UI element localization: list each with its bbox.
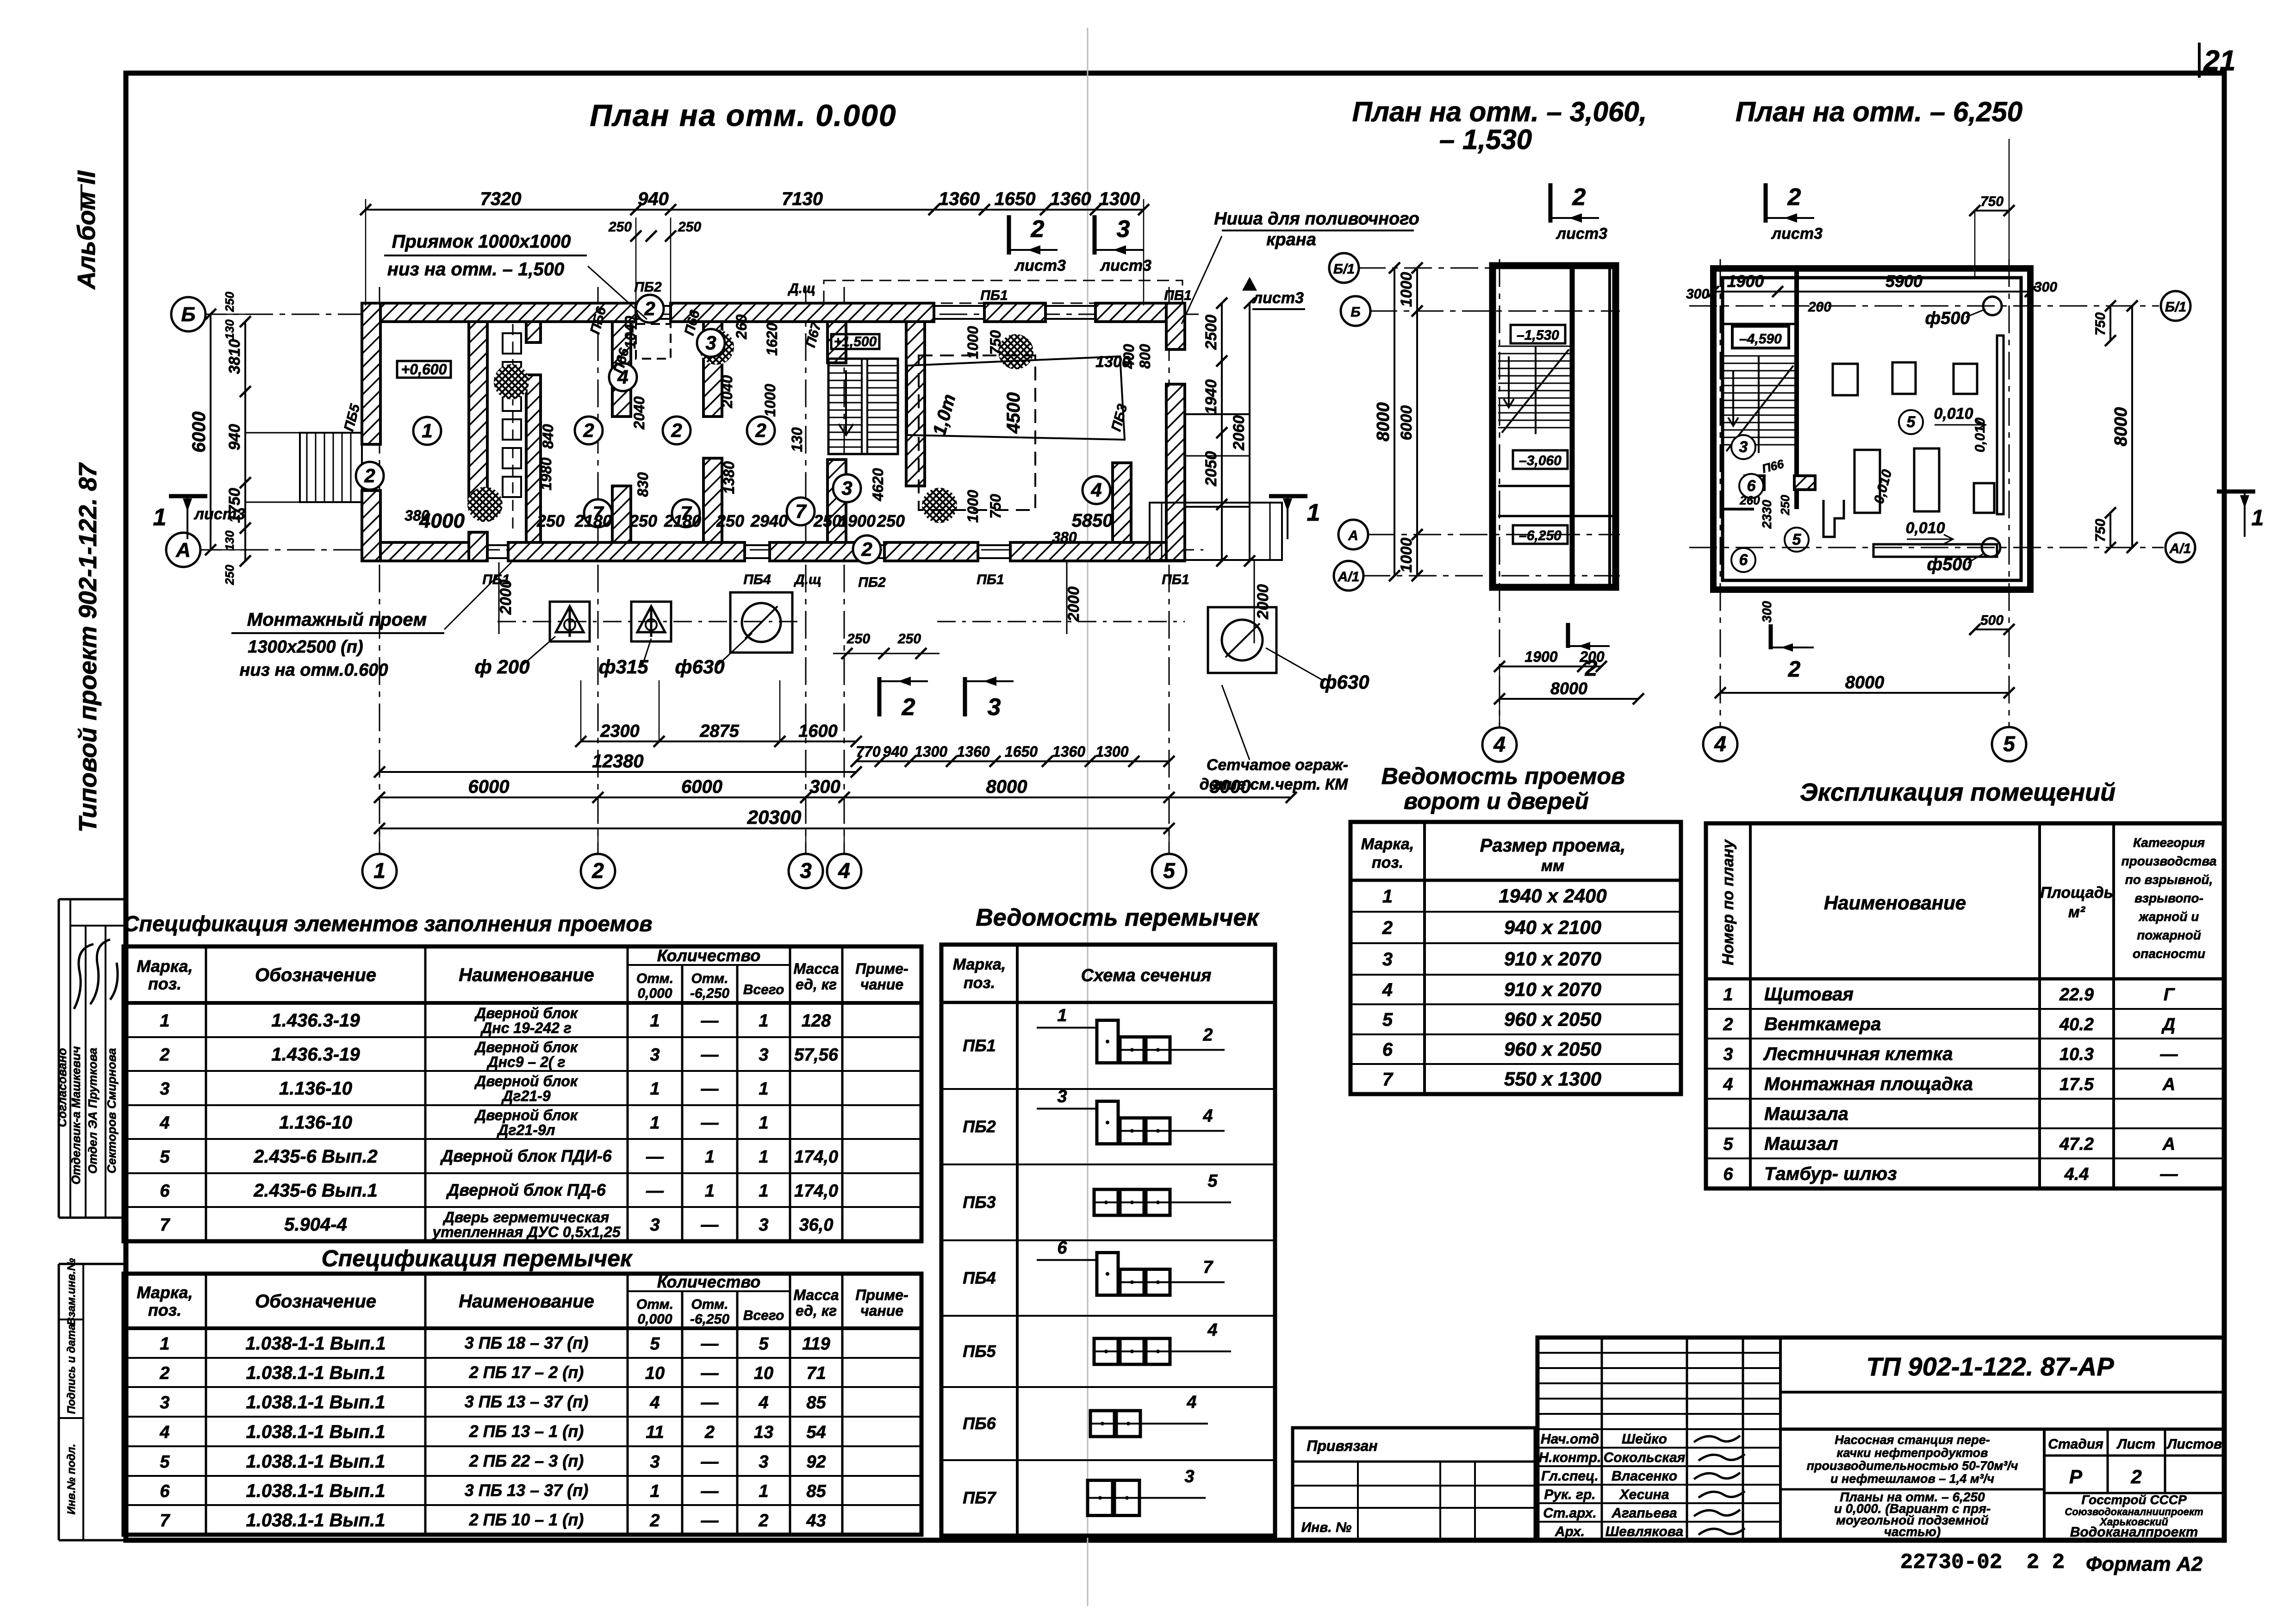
svg-text:—: — [701,1011,719,1031]
svg-text:300: 300 [809,777,840,797]
svg-text:1.038.1-1 Вып.1: 1.038.1-1 Вып.1 [246,1422,386,1442]
title block row [1537,1382,1780,1384]
svg-text:Р: Р [2069,1466,2083,1487]
svg-text:71: 71 [806,1364,826,1383]
svg-text:750: 750 [987,330,1004,355]
svg-text:5: 5 [1163,859,1176,883]
svg-text:Лестничная клетка: Лестничная клетка [1763,1044,1953,1064]
svg-text:1300: 1300 [915,743,947,760]
svg-text:чание: чание [860,976,903,993]
axis circle 1 [362,854,397,888]
panel [503,419,521,440]
fold crease line [1087,28,1089,1606]
svg-text:1: 1 [759,1482,768,1501]
svg-text:250: 250 [629,511,657,530]
axis line 2 vertical [597,287,599,854]
svg-text:174,0: 174,0 [794,1147,838,1167]
svg-text:Насосная станция пере-: Насосная станция пере- [1835,1433,1990,1447]
svg-text:2 ПБ 10 – 1 (п): 2 ПБ 10 – 1 (п) [469,1510,584,1529]
svg-text:лист3: лист3 [1556,225,1607,243]
svg-text:6000: 6000 [681,777,722,797]
svg-text:5: 5 [160,1147,170,1167]
svg-text:—: — [701,1364,719,1383]
svg-text:3: 3 [759,1452,768,1472]
svg-text:2: 2 [902,694,915,721]
svg-text:1380: 1380 [721,461,737,494]
room circle 2 [747,417,775,444]
svg-text:А/1: А/1 [2169,541,2191,556]
entrance stair tread [333,433,334,502]
svg-text:6: 6 [160,1182,170,1201]
electrical panels dashed [512,324,514,532]
svg-text:Масса: Масса [793,1287,839,1303]
svg-text:5: 5 [1792,531,1802,548]
svg-text:лист3: лист3 [1100,257,1151,274]
svg-text:940: 940 [226,424,243,450]
plan2 section mark 1 right [2217,490,2255,494]
svg-text:85: 85 [806,1393,826,1412]
svg-text:Секторов Смирнова: Секторов Смирнова [105,1048,118,1174]
svg-text:250: 250 [536,511,565,530]
svg-text:Рук. гр.: Рук. гр. [1544,1487,1595,1502]
svg-text:1650: 1650 [995,189,1036,209]
axis line 4 vertical [844,287,845,854]
page number tick [2198,43,2201,78]
svg-text:Дверь герметическая: Дверь герметическая [442,1209,610,1226]
stair tread left flight [828,373,862,374]
partition 1 lower [469,532,487,561]
vertical dimension line [1394,268,1395,576]
svg-text:поз.: поз. [1372,854,1403,871]
lintel square [1146,1338,1170,1364]
svg-text:Сетчатое ограж-: Сетчатое ограж- [1207,756,1348,774]
svg-text:300: 300 [1760,601,1774,622]
svg-text:8000: 8000 [1845,673,1885,692]
svg-text:Категория: Категория [2133,835,2205,850]
level -3,060 [1513,450,1568,469]
svg-text:Ниша для поливочного: Ниша для поливочного [1214,209,1419,229]
svg-text:10: 10 [754,1364,773,1383]
svg-text:250: 250 [678,219,701,235]
foundation centerline [498,621,801,622]
stair tread right flight [867,424,898,426]
lintel square [1120,1338,1144,1364]
svg-text:ворот и дверей: ворот и дверей [1404,788,1589,814]
svg-text:250: 250 [1778,495,1792,516]
svg-text:4: 4 [1382,980,1393,1000]
axis line A horizontal [194,549,1203,551]
bottom wall [508,542,745,561]
svg-text:Дг21-9: Дг21-9 [501,1088,550,1104]
title block outer [1537,1338,2224,1540]
partition 2 upper [526,322,541,342]
svg-text:Согласовано: Согласовано [55,1048,69,1127]
entrance stair tread [315,433,317,502]
svg-text:910 х 2070: 910 х 2070 [1504,948,1601,970]
axis circle B [171,297,205,331]
lintel tall block [1097,1253,1118,1295]
svg-text:Б: Б [1350,305,1360,320]
svg-text:1.038.1-1 Вып.1: 1.038.1-1 Вып.1 [246,1363,386,1383]
svg-text:5900: 5900 [1885,272,1923,291]
stairwell left wall top [828,322,846,363]
svg-text:Приямок 1000х1000: Приямок 1000х1000 [392,231,571,252]
svg-text:2: 2 [1585,656,1598,681]
svg-text:21: 21 [2203,45,2236,77]
table column line [841,946,844,1241]
svg-text:Д.щ: Д.щ [787,281,815,296]
svg-text:2180: 2180 [664,511,701,530]
svg-text:10: 10 [645,1364,665,1383]
stair tread left flight [828,432,862,433]
svg-text:3: 3 [705,332,716,354]
svg-text:3: 3 [988,694,1001,721]
svg-text:1900: 1900 [1727,272,1764,291]
lintel tall [1114,1481,1139,1516]
svg-text:Инв.№ подл.: Инв.№ подл. [65,1444,78,1515]
panel [503,448,521,468]
lintel square [1146,1037,1170,1063]
svg-text:130: 130 [789,427,805,452]
svg-text:7: 7 [1203,1258,1213,1277]
stair tread left flight [828,447,862,448]
lintel lines over bottom wall openings [485,544,508,546]
svg-text:Монтажная площадка: Монтажная площадка [1764,1074,1973,1095]
svg-text:8000: 8000 [2111,407,2131,447]
svg-text:—: — [2160,1045,2178,1064]
svg-text:—: — [701,1452,719,1472]
row line [124,1036,921,1038]
svg-text:1: 1 [650,1114,660,1133]
signature row line [1537,1465,1780,1467]
svg-text:2: 2 [644,298,655,319]
svg-text:1940: 1940 [1202,380,1220,415]
svg-text:1360: 1360 [957,743,989,760]
svg-text:2: 2 [861,538,872,560]
table column line [205,946,207,1241]
svg-text:Приме-: Приме- [855,960,908,977]
svg-text:1900: 1900 [1524,648,1557,665]
svg-text:5: 5 [650,1334,660,1354]
stair tread left flight [828,424,862,426]
svg-text:128: 128 [802,1011,831,1031]
svg-text:1000: 1000 [1398,538,1415,573]
entrance stair tread [306,433,308,502]
svg-text:2875: 2875 [699,722,739,741]
svg-text:1: 1 [1723,985,1733,1005]
svg-text:750: 750 [2093,519,2108,542]
table column line [681,1291,684,1535]
svg-text:500: 500 [1980,613,2004,628]
svg-text:м²: м² [2068,903,2086,921]
svg-text:Марка,: Марка, [953,956,1006,973]
svg-text:119: 119 [802,1334,830,1354]
dense hatch blob [699,330,734,365]
svg-text:250: 250 [716,511,744,530]
svg-text:174,0: 174,0 [794,1182,838,1201]
svg-text:0,010: 0,010 [1905,519,1945,537]
svg-text:7320: 7320 [480,189,522,209]
svg-text:940: 940 [638,189,669,209]
svg-text:960 х 2050: 960 х 2050 [1504,1038,1601,1060]
svg-text:85: 85 [806,1482,826,1501]
svg-text:1000: 1000 [964,326,981,359]
plan2 small wall hatch [1745,476,1764,490]
stair tread left flight [828,410,862,411]
svg-text:3: 3 [759,1215,768,1235]
main stairwell [828,359,898,454]
svg-text:—: — [701,1334,719,1354]
svg-text:лист3: лист3 [193,505,245,523]
svg-text:2: 2 [1723,1015,1733,1034]
svg-text:2: 2 [1031,216,1045,243]
top wall [984,303,1045,322]
dashed utility zone [824,280,1182,303]
svg-text:ф500: ф500 [1927,555,1972,574]
partition 4 upper [703,322,722,417]
svg-text:Агапьева: Агапьева [1611,1506,1677,1521]
lintel square [1120,1118,1144,1144]
svg-text:2: 2 [1788,657,1801,682]
svg-text:1600: 1600 [798,722,838,741]
lintel tall block [1097,1020,1118,1063]
svg-text:1300: 1300 [1099,189,1140,209]
signature row line [1537,1447,1780,1449]
svg-text:13: 13 [754,1423,773,1442]
dense hatch blob [494,364,529,399]
svg-text:200: 200 [1808,299,1831,315]
svg-text:Власенко: Власенко [1612,1468,1677,1484]
svg-text:4: 4 [838,859,850,883]
lintel tall block [1097,1101,1118,1144]
svg-text:Гл.спец.: Гл.спец. [1541,1468,1599,1484]
svg-text:2.435-6 Вып.2: 2.435-6 Вып.2 [253,1146,378,1167]
row line [124,1475,921,1477]
svg-text:800: 800 [1137,344,1153,369]
svg-text:Днс 19-242 г: Днс 19-242 г [480,1020,572,1036]
svg-text:260: 260 [733,314,750,340]
svg-text:5850: 5850 [1072,510,1113,531]
lintel square [1120,1037,1144,1063]
svg-text:1980: 1980 [538,457,554,490]
svg-text:ф630: ф630 [675,656,724,678]
table column line [789,1274,791,1535]
svg-text:1: 1 [2252,506,2264,530]
svg-text:Количество: Количество [657,1272,760,1291]
svg-text:Дг21-9л: Дг21-9л [496,1122,555,1139]
vertical dimension line [210,314,212,550]
svg-text:4: 4 [1090,479,1101,501]
svg-text:жарной и: жарной и [2138,909,2199,924]
svg-text:План на отм. – 3,060,: План на отм. – 3,060, [1352,96,1647,127]
svg-text:3: 3 [650,1452,660,1472]
svg-text:5: 5 [2003,732,2016,756]
svg-text:3 ПБ 18 – 37 (п): 3 ПБ 18 – 37 (п) [465,1333,589,1352]
svg-text:22730-02: 22730-02 [1900,1550,2003,1574]
svg-text:Тамбур- шлюз: Тамбур- шлюз [1764,1164,1897,1184]
svg-text:—: — [701,1045,719,1065]
svg-text:Наименование: Наименование [1824,892,1966,914]
svg-text:Площадь: Площадь [2040,884,2113,902]
svg-text:Марка,: Марка, [137,1283,193,1302]
svg-text:Ст.арх.: Ст.арх. [1543,1506,1597,1521]
plan2 outer wall [1713,268,2030,590]
svg-text:2040: 2040 [719,375,735,408]
vertical dimension line [1221,303,1223,561]
svg-text:–3,060: –3,060 [1519,453,1562,468]
svg-text:1.038-1-1 Вып.1: 1.038-1-1 Вып.1 [245,1333,386,1354]
svg-text:ф315: ф315 [598,656,648,678]
svg-text:7: 7 [160,1511,170,1531]
axis line 3 vertical [805,287,807,854]
svg-text:Альбом II: Альбом II [73,170,100,290]
stair tread left flight [828,402,862,404]
svg-text:4620: 4620 [870,468,886,501]
svg-text:3: 3 [1723,1045,1733,1064]
axis circle 3 [789,854,823,888]
svg-text:3: 3 [1117,216,1130,243]
top wall [671,303,934,322]
svg-text:ПБ1: ПБ1 [1162,572,1189,587]
stair tread left flight [828,387,862,389]
row line [124,1357,921,1359]
svg-text:2: 2 [364,465,375,486]
svg-text:Водоканалпроект: Водоканалпроект [2070,1524,2198,1540]
svg-text:Обозначение: Обозначение [255,1291,376,1312]
panel [503,391,521,411]
svg-text:4: 4 [1207,1320,1217,1340]
svg-text:2: 2 [583,419,594,441]
mark V list3 [1242,277,1257,291]
table column line [681,965,684,1241]
svg-text:лист3: лист3 [1771,225,1823,243]
svg-text:1: 1 [1057,1006,1067,1026]
svg-text:А/1: А/1 [1338,569,1360,585]
priyamok pit rect [636,324,671,359]
entrance stair tread [324,433,325,502]
svg-text:550 х 1300: 550 х 1300 [1504,1068,1601,1090]
svg-text:+1,500: +1,500 [834,334,877,349]
dimension line [1500,698,1638,700]
signature squiggle [1699,1491,1745,1498]
svg-text:6000: 6000 [468,777,510,797]
plan2 inner wall line [1723,278,2021,580]
dense hatch blob [922,488,957,523]
lintel lines over top wall opening [636,305,671,307]
vertical dimension line [2109,306,2111,341]
machine hall dashed outline [919,355,1035,510]
svg-text:2040: 2040 [631,396,647,429]
svg-text:3: 3 [1382,949,1393,970]
svg-text:Б/1: Б/1 [1333,261,1355,277]
svg-text:2: 2 [1572,184,1586,211]
svg-text:поз.: поз. [964,974,995,992]
bottom wall [1010,542,1185,561]
svg-text:1000: 1000 [762,384,778,417]
level mark +1,500 [831,334,879,349]
svg-text:Масса: Масса [793,960,839,977]
table column line [627,946,629,1241]
table outer [124,1274,921,1535]
svg-text:20300: 20300 [747,806,802,828]
dense hatch blob [998,334,1033,369]
dimension line [1975,210,2009,212]
svg-text:Инв. №: Инв. № [1301,1520,1352,1535]
svg-text:4: 4 [649,1393,660,1412]
plan2 lower partitions [1723,508,1754,510]
section mark 2 bottom [877,677,882,716]
stair tread left flight [828,417,862,418]
svg-text:5: 5 [1207,1171,1218,1191]
svg-text:–1,530: –1,530 [1517,328,1559,343]
svg-text:5: 5 [160,1452,170,1472]
svg-text:6: 6 [1739,551,1748,569]
svg-text:ед, кг: ед, кг [796,976,837,993]
entrance stair tread [342,433,343,502]
svg-text:840: 840 [540,424,556,449]
row line [124,1104,921,1106]
svg-text:2: 2 [758,1511,768,1531]
svg-text:3: 3 [650,1215,660,1235]
room circle 3 [833,474,861,502]
signature squiggle [1694,1510,1740,1516]
svg-text:2500: 2500 [1202,315,1220,350]
table column line [424,946,427,1241]
svg-text:4.4: 4.4 [2064,1165,2089,1184]
svg-text:1: 1 [759,1079,768,1099]
svg-text:1.136-10: 1.136-10 [279,1078,352,1099]
stair tread right flight [867,395,898,396]
room circle 4 [609,363,637,391]
panel [503,362,521,382]
title block row [1537,1367,1780,1369]
svg-text:6: 6 [160,1482,170,1501]
svg-text:Марка,: Марка, [137,957,193,976]
svg-text:Отдел ЭА Пруткова: Отдел ЭА Пруткова [86,1048,100,1174]
svg-text:260: 260 [1739,493,1760,507]
svg-text:Листов: Листов [2166,1437,2222,1452]
svg-text:4: 4 [1714,732,1726,756]
top wall [1095,303,1185,322]
svg-text:750: 750 [987,494,1004,519]
dimension line [581,740,856,742]
svg-text:Приме-: Приме- [855,1287,908,1303]
plan1 outer wall [1493,266,1616,587]
svg-text:2: 2 [1787,184,1801,211]
svg-text:—: — [701,1482,719,1501]
crane trapezoid [907,356,1125,440]
svg-text:2: 2 [755,419,766,441]
svg-text:2 ПБ 13 – 1 (п): 2 ПБ 13 – 1 (п) [469,1422,584,1441]
svg-text:770: 770 [856,743,881,760]
svg-text:1.038.1-1 Вып.1: 1.038.1-1 Вып.1 [246,1451,386,1472]
svg-text:4: 4 [1493,732,1506,756]
row line [124,1172,921,1174]
svg-text:—: — [701,1079,719,1099]
svg-text:1: 1 [759,1011,768,1031]
title block row [1537,1413,1780,1415]
panel [503,477,521,497]
svg-text:130: 130 [223,319,236,340]
plan1 axis circles [1358,268,1620,269]
svg-text:2: 2 [1382,918,1393,938]
header bottom line [124,1001,921,1005]
svg-text:Отм.: Отм. [636,971,673,986]
dimension line [1720,692,2009,694]
row line [124,1138,921,1140]
vertical dimension line [244,322,246,561]
svg-text:2: 2 [2130,1466,2141,1487]
